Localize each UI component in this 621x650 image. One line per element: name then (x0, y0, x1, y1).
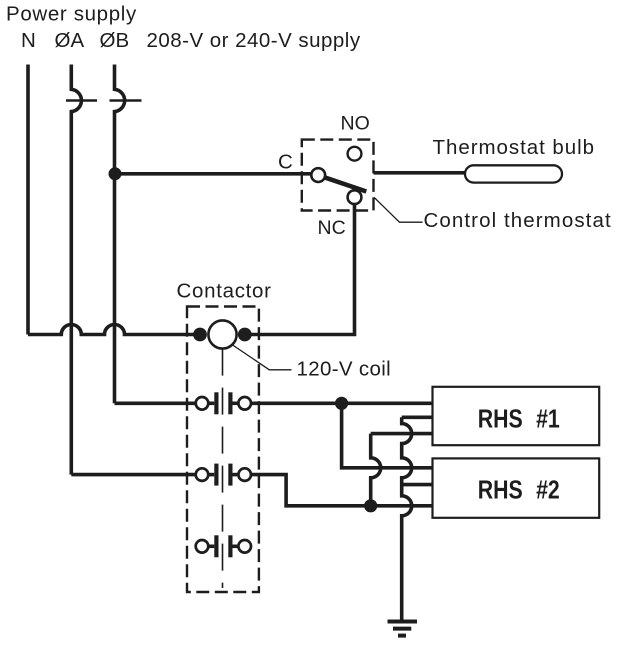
wire phase B horizontal to contact 1 (115, 401, 196, 405)
svg-text:RHS: RHS (478, 405, 523, 435)
wire phase A horizontal to contact 2 (71, 473, 196, 477)
coil terminal dot left (193, 328, 207, 342)
svg-text:120-V coil: 120-V coil (297, 358, 391, 381)
label: RHS #2 (478, 476, 560, 506)
breaker tick A (66, 99, 97, 102)
coil circle (208, 320, 236, 348)
svg-text:#2: #2 (536, 476, 560, 506)
wire contact 1 output to RHS 1 (251, 401, 433, 405)
thermostat NC terminal (348, 190, 362, 204)
contact 2 (196, 464, 251, 486)
linkage dashed line (222, 349, 224, 588)
svg-text:NO: NO (341, 113, 370, 135)
thermostat NO terminal (348, 147, 362, 161)
svg-text:ØA: ØA (55, 29, 85, 52)
wire N vertical (26, 65, 30, 335)
label: RHS #1 (478, 405, 560, 435)
wire contact 2 output to RHS 2 (251, 475, 433, 506)
RHS 1 box (433, 387, 600, 445)
coil terminal dot right (238, 328, 252, 342)
RHS 2 box (433, 458, 600, 517)
leader line to Control thermostat (374, 197, 423, 222)
ground vertical with hops (402, 417, 412, 620)
wire ground to RHS1 mid (402, 415, 433, 419)
svg-text:Thermostat bulb: Thermostat bulb (433, 136, 596, 159)
wire thermostat C from phase B (115, 172, 313, 176)
contact 3 spare (196, 535, 251, 557)
wire branch down to RHS 2 top (342, 403, 433, 468)
thermostat C terminal (311, 168, 325, 182)
breaker tick B (110, 99, 142, 102)
wire N horizontal to coil with hops over phase A and B (28, 325, 206, 335)
svg-text:Control thermostat: Control thermostat (424, 209, 612, 232)
svg-text:208-V or 240-V supply: 208-V or 240-V supply (147, 29, 361, 52)
svg-text:ØB: ØB (100, 29, 130, 52)
wire phase A vertical with breaker arc (71, 65, 81, 475)
leader line to 120-V coil (226, 341, 292, 370)
wire thermostat to bulb (374, 171, 467, 175)
thermostat bulb (465, 165, 562, 182)
wire ground to RHS2 mid (402, 483, 433, 487)
svg-text:#1: #1 (536, 405, 560, 435)
contactor dashed box (187, 307, 259, 593)
wire phase B vertical with breaker arc (115, 65, 125, 404)
junction dot on contact 2 output (364, 499, 377, 512)
svg-text:Contactor: Contactor (177, 280, 272, 303)
contact 1 (196, 392, 251, 414)
control thermostat dashed box (302, 140, 374, 211)
svg-text:NC: NC (318, 217, 346, 239)
thermostat switch blade (324, 177, 366, 191)
svg-text:RHS: RHS (478, 476, 523, 506)
svg-text:Power supply: Power supply (6, 3, 137, 26)
junction dot phase B / thermostat (109, 167, 122, 180)
wire RHS1 bottom feed with hop (371, 432, 433, 436)
ground symbol (388, 622, 418, 636)
svg-text:N: N (21, 29, 36, 52)
svg-text:C: C (278, 151, 293, 174)
wire NC down to coil row (240, 204, 355, 334)
junction dot on contact 1 output (335, 397, 348, 410)
